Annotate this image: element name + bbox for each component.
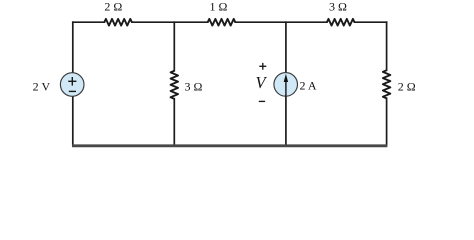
svg-text:2 Ω: 2 Ω (398, 80, 416, 94)
svg-text:3 Ω: 3 Ω (184, 80, 202, 94)
svg-text:3 Ω: 3 Ω (329, 0, 347, 14)
svg-text:V: V (256, 73, 268, 92)
svg-text:1 Ω: 1 Ω (210, 0, 228, 14)
svg-text:2 V: 2 V (33, 80, 51, 94)
svg-text:2 A: 2 A (299, 78, 316, 92)
svg-text:2 Ω: 2 Ω (104, 0, 122, 14)
